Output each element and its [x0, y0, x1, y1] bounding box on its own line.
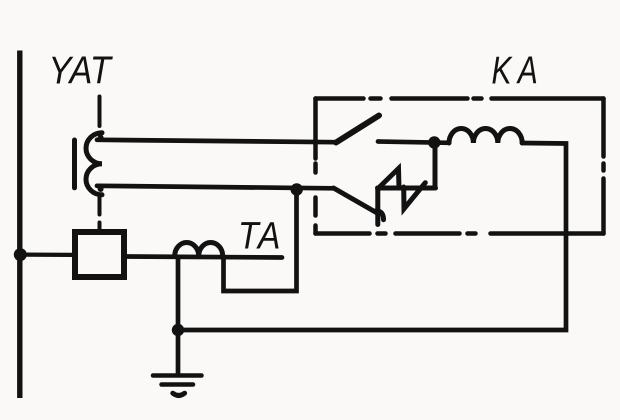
- node ground junction: [172, 324, 184, 336]
- contact blade KA: [336, 116, 379, 143]
- svg-text:TA: TA: [238, 214, 282, 257]
- mechanical link (dashed) YAT axis: [98, 97, 102, 231]
- svg-text:KA: KA: [492, 50, 545, 92]
- trip mechanism upper triangle: [379, 169, 400, 189]
- svg-text:YAT: YAT: [49, 48, 114, 92]
- wire contact to coil: [378, 142, 449, 143]
- relay KA boundary box top: [316, 96, 604, 101]
- armature link diagonal: [334, 188, 379, 214]
- wire YAT top to contact: [97, 140, 336, 142]
- ground: [153, 373, 202, 378]
- wire TA secondary right loop to node: [224, 192, 297, 291]
- breaker drive box: [75, 232, 124, 277]
- trip mechanism bar: [378, 186, 436, 191]
- node bus junction: [14, 248, 27, 261]
- striker hook: [377, 211, 384, 220]
- trip mechanism lower triangle: [404, 183, 426, 209]
- trip coil YAT arcs: [86, 133, 102, 195]
- trip coil YAT core bar: [72, 140, 77, 188]
- wire TA primary: [127, 257, 282, 258]
- bus bar: [17, 51, 22, 399]
- relay coil KA: [449, 129, 522, 144]
- relay KA boundary box left: [313, 99, 318, 234]
- wire YAT bottom to node: [97, 186, 334, 189]
- node relay input junction: [291, 183, 303, 195]
- current transformer TA winding: [175, 243, 223, 257]
- relay KA boundary box bottom: [316, 231, 604, 236]
- relay KA boundary box right: [601, 99, 606, 234]
- wire coil junction down to mechanism: [433, 143, 438, 188]
- wire TA secondary left down to ground: [176, 257, 181, 375]
- wire coil to right drop: [178, 143, 566, 330]
- wire bus to drive box: [22, 253, 72, 257]
- striker pendant: [375, 189, 380, 225]
- node KA coil junction: [428, 136, 440, 148]
